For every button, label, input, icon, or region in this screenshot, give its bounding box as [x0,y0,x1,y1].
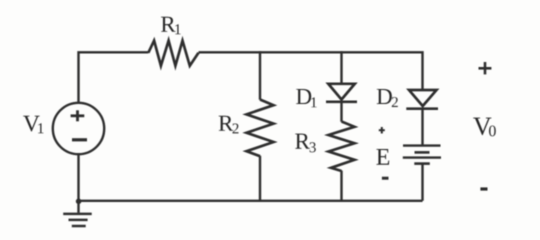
battery E plate 4 (short, -) [414,162,430,165]
wire: D2 to battery E [421,109,423,145]
diode D1 [326,84,357,102]
battery E plate 2 (short) [415,151,430,154]
wire: left branch top (V1 top to top rail, corner at top-left) [79,52,149,103]
wire: battery to bottom rail [421,164,423,201]
label D2 [377,89,392,104]
wire: top rail from R1 to right branch, corner down to D2 [199,52,423,90]
ground bar 1 [63,213,91,216]
wire: R2 branch upper [259,51,261,99]
output minus sign (right, bottom) [480,187,487,190]
ground stem [77,204,79,213]
wire: R2 branch lower [259,156,261,201]
battery E plus sign label [379,127,385,134]
resistor R3 [329,122,355,172]
wire: D1 to R3 [340,102,342,122]
battery E plate 3 (long) [403,156,441,158]
source V1 plus sign [71,110,85,121]
wire: R3 branch lower [340,171,342,201]
resistor R2 [247,100,274,157]
label R3 [295,134,310,149]
label R1 [161,17,176,32]
wire: V1 bottom to ground node [77,154,79,203]
label E [376,149,389,165]
diode D2 [406,90,438,109]
label V0 [473,118,491,135]
source V1 minus sign [72,138,87,141]
source V1 circle [53,103,104,154]
ground bar 2 [69,219,88,222]
battery E minus sign label [382,177,389,180]
label R2 [219,116,234,131]
wire: D1 branch upper [340,51,342,84]
ground bar 3 [72,225,86,228]
output plus sign (right, top) [479,62,492,74]
battery E plate 1 (long, +) [403,144,441,146]
resistor R1 [148,41,198,66]
label D1 [296,89,311,104]
node: ground junction dot [76,199,82,205]
label V1 [23,116,39,132]
wire: bottom rail [79,200,423,202]
